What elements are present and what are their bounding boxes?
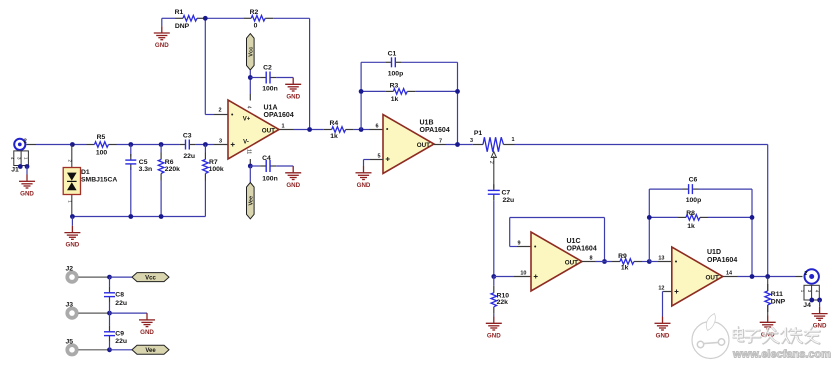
- svg-text:100: 100: [96, 150, 108, 157]
- svg-text:R5: R5: [97, 134, 106, 141]
- svg-text:3: 3: [470, 138, 473, 144]
- svg-text:U1B: U1B: [420, 119, 434, 126]
- svg-text:R4: R4: [329, 120, 338, 127]
- svg-text:V+: V+: [243, 117, 251, 123]
- svg-text:C8: C8: [115, 292, 124, 299]
- svg-text:7: 7: [439, 139, 442, 145]
- svg-text:2: 2: [24, 139, 27, 145]
- svg-text:100n: 100n: [262, 175, 278, 182]
- svg-text:J5: J5: [66, 338, 74, 345]
- svg-text:3.3n: 3.3n: [139, 166, 153, 173]
- svg-text:U1A: U1A: [264, 104, 278, 111]
- svg-text:1k: 1k: [391, 96, 399, 103]
- svg-text:220k: 220k: [165, 166, 180, 173]
- svg-text:5: 5: [377, 154, 380, 160]
- svg-text:C1: C1: [388, 50, 397, 57]
- svg-text:1k: 1k: [687, 223, 695, 230]
- svg-text:1k: 1k: [330, 133, 338, 140]
- svg-text:Vee: Vee: [249, 196, 255, 206]
- svg-text:Vcc: Vcc: [145, 275, 156, 281]
- svg-text:GND: GND: [487, 332, 501, 339]
- svg-text:OUT: OUT: [565, 259, 578, 266]
- svg-text:22k: 22k: [497, 299, 509, 306]
- svg-text:GND: GND: [357, 182, 371, 189]
- svg-text:11: 11: [246, 149, 252, 154]
- svg-text:P1: P1: [474, 130, 483, 137]
- svg-text:9: 9: [517, 240, 520, 246]
- svg-text:8: 8: [590, 255, 593, 261]
- svg-text:GND: GND: [155, 42, 169, 49]
- svg-text:22u: 22u: [503, 197, 515, 204]
- svg-text:100p: 100p: [686, 197, 702, 204]
- svg-text:J1: J1: [11, 167, 19, 174]
- svg-text:C6: C6: [689, 177, 698, 184]
- svg-text:OPA1604: OPA1604: [707, 257, 737, 264]
- svg-text:C3: C3: [183, 132, 192, 139]
- svg-text:GND: GND: [286, 182, 300, 189]
- svg-text:www.elecfans.com: www.elecfans.com: [732, 349, 831, 361]
- svg-text:R3: R3: [390, 82, 399, 89]
- svg-text:GND: GND: [140, 329, 154, 336]
- svg-text:100k: 100k: [209, 166, 224, 173]
- svg-text:U1D: U1D: [707, 249, 721, 256]
- svg-text:R8: R8: [686, 210, 695, 217]
- svg-text:DNP: DNP: [175, 23, 190, 30]
- svg-text:OPA1604: OPA1604: [420, 127, 450, 134]
- svg-text:14: 14: [726, 270, 733, 276]
- svg-text:DNP: DNP: [771, 298, 786, 305]
- svg-text:OUT: OUT: [417, 142, 430, 149]
- svg-text:R1: R1: [175, 9, 184, 16]
- svg-text:100n: 100n: [262, 86, 278, 93]
- svg-text:13: 13: [658, 255, 664, 261]
- svg-text:R2: R2: [250, 9, 259, 16]
- svg-text:U1C: U1C: [567, 238, 581, 245]
- svg-text:3: 3: [219, 139, 222, 145]
- svg-text:6: 6: [375, 124, 378, 130]
- svg-text:1: 1: [282, 124, 285, 130]
- svg-text:OPA1604: OPA1604: [567, 246, 597, 253]
- svg-text:C9: C9: [115, 331, 124, 338]
- svg-text:OUT: OUT: [262, 127, 275, 134]
- svg-text:OUT: OUT: [706, 274, 719, 281]
- svg-text:22u: 22u: [115, 300, 127, 307]
- svg-text:V-: V-: [243, 140, 249, 146]
- svg-text:R11: R11: [771, 291, 783, 298]
- svg-text:2: 2: [804, 271, 807, 277]
- svg-text:GND: GND: [20, 190, 34, 197]
- svg-text:C2: C2: [263, 64, 272, 71]
- svg-text:10: 10: [520, 270, 526, 276]
- svg-text:4: 4: [246, 106, 252, 109]
- svg-text:C7: C7: [502, 190, 511, 197]
- svg-text:GND: GND: [66, 242, 80, 249]
- svg-text:GND: GND: [656, 332, 670, 339]
- svg-text:GND: GND: [813, 323, 827, 330]
- svg-text:1: 1: [512, 137, 515, 143]
- svg-text:SMBJ15CA: SMBJ15CA: [81, 177, 117, 184]
- svg-text:22u: 22u: [115, 338, 127, 345]
- svg-text:C4: C4: [262, 155, 271, 162]
- svg-text:2: 2: [218, 108, 221, 114]
- svg-text:GND: GND: [286, 93, 300, 100]
- svg-text:OPA1604: OPA1604: [264, 112, 294, 119]
- svg-text:D1: D1: [81, 169, 90, 176]
- svg-text:12: 12: [658, 285, 664, 291]
- svg-text:2: 2: [488, 161, 494, 164]
- svg-text:0: 0: [254, 22, 258, 29]
- svg-text:J4: J4: [803, 302, 811, 309]
- svg-text:J3: J3: [66, 302, 74, 309]
- svg-text:Vcc: Vcc: [249, 47, 255, 57]
- svg-text:100p: 100p: [388, 70, 404, 77]
- svg-text:R9: R9: [618, 253, 627, 260]
- svg-text:Vee: Vee: [145, 348, 156, 354]
- svg-text:J2: J2: [66, 266, 74, 273]
- svg-text:22u: 22u: [183, 153, 195, 160]
- svg-text:1k: 1k: [621, 265, 629, 272]
